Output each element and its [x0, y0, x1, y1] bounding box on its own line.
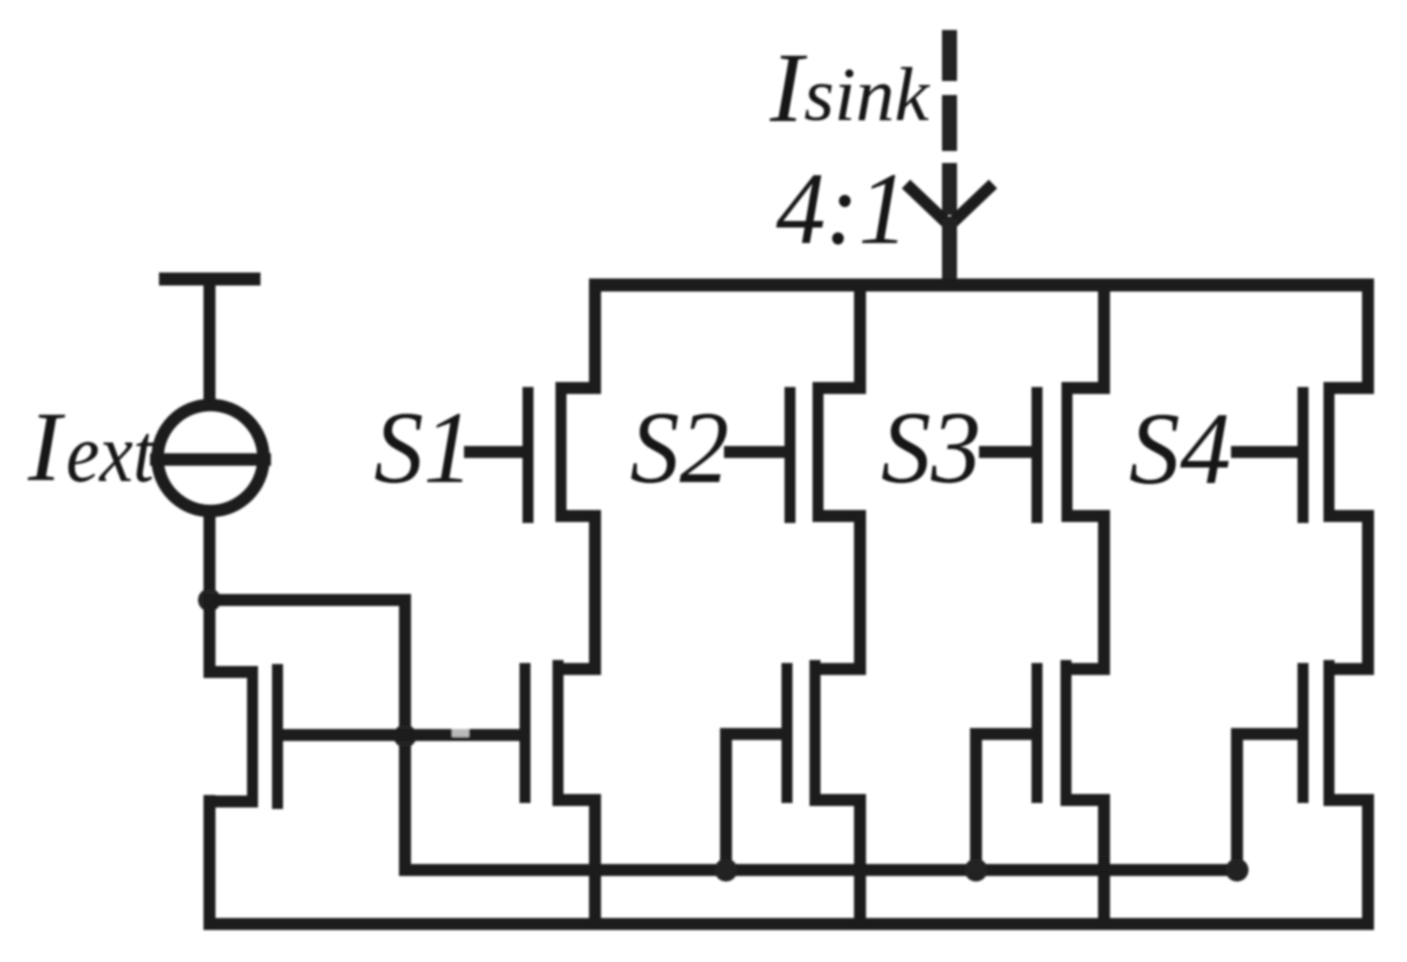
wire: M4 gate riser from bus [1237, 734, 1298, 876]
wire: S2 drain riser to top rail [854, 285, 866, 394]
wire: node A horizontal to gate column [204, 594, 412, 606]
wire: S2 switch source to M2 drain [854, 510, 866, 675]
transistor M0 (diode-connected mirror reference, mirrored) [204, 664, 278, 809]
svg-text:sink: sink [804, 53, 930, 137]
wire: M2 gate riser from bus [726, 734, 782, 876]
svg-text:4:1: 4:1 [776, 152, 908, 266]
wire: Iext terminal to current source [204, 279, 216, 410]
wire: M1 source to ground rail [589, 794, 601, 930]
wire: S4 drain riser to top rail [1362, 285, 1374, 394]
node: gate bus (mirror gates) [403, 864, 1243, 876]
wire: S1 gate lead [464, 446, 523, 458]
wire: M3 source to ground rail [1098, 794, 1110, 930]
transistor Q2 (switch S2) [790, 382, 866, 523]
current source Iext (bar) [150, 453, 271, 466]
wire: vertical gate feed (node A down to gate bus) [399, 594, 411, 876]
wire: S2 gate lead [724, 446, 785, 458]
node: top rail (common drain node) [589, 279, 1374, 292]
wire: current source to node A [204, 508, 216, 606]
label Iext [27, 391, 156, 502]
wire: S3 switch source to M3 drain [1098, 510, 1110, 675]
wire: S1 switch source to M1 drain [589, 510, 601, 675]
node: bus junction dot at S4 riser [1226, 859, 1249, 882]
transistor Q4 (switch S4) [1303, 382, 1374, 523]
svg-text:I: I [27, 391, 66, 502]
svg-text:S2: S2 [630, 391, 729, 505]
wire: S1 drain riser to top rail [589, 285, 601, 394]
transistor Q1 (switch S1) [528, 382, 601, 523]
wire: M2 source to ground rail [854, 794, 866, 930]
artifact: faint gray mark on gate wire [452, 729, 469, 737]
label Isink [769, 32, 930, 143]
current source Iext (circle) [158, 405, 264, 511]
node: bus junction dot at S3 riser [965, 859, 988, 882]
svg-text:S1: S1 [374, 391, 473, 505]
wire: Iext top terminal bar [159, 273, 261, 286]
wire: node A down to M0 drain [204, 600, 216, 678]
transistor M3 (mirror branch 3) [1037, 660, 1110, 803]
node: bottom ground rail [204, 918, 1374, 930]
wire: Isink dashed lead (dash 1) [942, 30, 957, 81]
wire: arrow stem into top rail [942, 219, 957, 291]
wire: M0 source down to ground rail [204, 795, 216, 930]
node: bus junction dot at S2 riser [715, 859, 738, 882]
transistor Q3 (switch S3) [1037, 382, 1110, 523]
svg-text:I: I [769, 32, 808, 143]
wire: M4 source to ground rail [1362, 794, 1374, 930]
wire: Isink dashed lead (dash 2) [942, 95, 957, 151]
node A: junction dot (drain of M0) [198, 589, 221, 612]
arrowhead: Isink current arrow (V head) [906, 184, 993, 226]
wire: Isink dashed lead (dash 3) [942, 163, 957, 215]
wire: S4 switch source to M4 drain [1362, 510, 1374, 675]
transistor M4 (mirror branch 4) [1303, 660, 1374, 803]
svg-text:ext: ext [66, 407, 156, 500]
transistor M2 (mirror branch 2) [787, 660, 866, 803]
node B: gate junction dot [394, 725, 417, 748]
svg-text:S3: S3 [881, 391, 981, 505]
wire: S3 gate lead [979, 446, 1032, 458]
wire: M3 gate riser from bus [976, 734, 1032, 876]
wire: S4 gate lead [1231, 446, 1298, 458]
wire: S3 drain riser to top rail [1098, 285, 1110, 394]
wire: M0 gate to node B to M1 gate [272, 729, 524, 741]
transistor M1 (mirror branch 1) [525, 660, 601, 803]
svg-text:S4: S4 [1129, 392, 1231, 506]
